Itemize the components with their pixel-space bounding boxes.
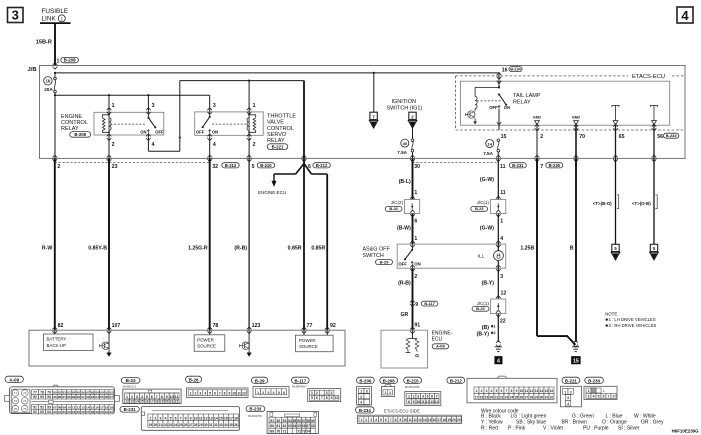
svg-text:B-26: B-26 [389,206,398,211]
svg-text:17: 17 [229,417,233,421]
svg-text:14: 14 [135,399,139,403]
svg-text:2: 2 [540,134,543,140]
svg-text:18: 18 [105,405,109,409]
svg-text:40: 40 [403,141,408,146]
svg-text:B-221: B-221 [565,378,578,383]
svg-text:95: 95 [53,395,57,399]
svg-text:2: 2 [253,142,256,148]
svg-text:68: 68 [311,424,315,428]
wire (B)/(B-Y) to ground [497,314,499,342]
connector table B-210 [404,377,422,383]
svg-text:26: 26 [81,410,85,414]
ECU entry connector marks [53,327,58,330]
svg-text:9: 9 [190,417,192,421]
wire 1.25B pin7 to ground [536,158,538,336]
wire tail relay output pin 15 [498,109,500,130]
svg-text:77: 77 [307,323,313,329]
wire (B-W) J/C(2) to AS&G switch [412,214,414,245]
twist bracket 56 [655,195,657,209]
svg-text:20: 20 [53,410,57,414]
junction connector J/C(1) B-23 box lower [491,299,506,314]
svg-text:OFF: OFF [196,130,205,135]
svg-text:B-208: B-208 [64,58,77,63]
wire fuse 40 output [412,152,414,158]
svg-text:POWER: POWER [197,337,214,342]
svg-text:B-117: B-117 [424,301,434,306]
svg-text:1: 1 [476,389,478,393]
twist bracket 65 [617,195,619,209]
svg-text:(B-Y): (B-Y) [477,331,490,337]
svg-text:ECU: ECU [432,337,443,343]
switch sense symbol pin 65 [612,105,619,107]
wire 15B-R from fusible link [54,23,56,66]
svg-text:B-210: B-210 [260,163,272,168]
svg-text:10: 10 [403,418,407,422]
svg-text:GND: GND [572,116,581,120]
svg-text:90: 90 [100,390,104,394]
svg-text:52: 52 [40,405,44,409]
svg-text:GND: GND [533,116,542,120]
svg-text:(B-W): (B-W) [397,226,411,232]
wire 0.85Y-B pin23 to ECU pin 107 [108,158,110,330]
tail relay driver transistor [468,111,475,118]
svg-text:L : Blue: L : Blue [606,413,623,419]
svg-text:J/C(2): J/C(2) [391,200,404,205]
svg-text:2: 2 [360,395,362,399]
wire (R-B) AS&G to B-117 [412,268,414,330]
svg-text:OFF: OFF [398,261,407,266]
inline connector 9 B-117 [410,300,415,303]
svg-text:78: 78 [213,323,219,329]
svg-text:0.85Y-B: 0.85Y-B [88,245,107,251]
svg-text:7: 7 [321,396,323,400]
svg-text:✱1 : LH DRIVE VEHICLES: ✱1 : LH DRIVE VEHICLES [605,317,656,322]
wire throttle relay contact pin 4 [209,134,211,158]
svg-text:MU803780: MU803780 [248,414,262,418]
page reference 4 (top right) [677,7,693,23]
svg-text:G : Green: G : Green [572,413,594,419]
svg-text:B-208: B-208 [383,378,396,383]
svg-text:94: 94 [47,395,51,399]
svg-text:14: 14 [214,417,218,421]
svg-text:13: 13 [209,417,213,421]
throttle relay mechanical link dashed [212,123,246,125]
svg-text:3: 3 [588,394,590,398]
svg-text:1: 1 [564,390,566,394]
svg-text:W : White: W : White [634,413,656,419]
condenser transistor pin 107 [102,342,109,349]
svg-text:SB : Sky blue: SB : Sky blue [516,420,546,426]
svg-text:6: 6 [501,389,503,393]
svg-text:2: 2 [389,391,391,395]
svg-text:18: 18 [480,396,484,400]
svg-text:56: 56 [657,134,663,140]
svg-text:GR : Grey: GR : Grey [641,420,664,426]
battery back-up box [54,330,56,334]
svg-text:6: 6 [603,394,605,398]
svg-text:B-233: B-233 [249,407,262,412]
svg-text:18: 18 [442,418,446,422]
svg-text:1: 1 [360,389,362,393]
connector table B-233 [246,406,265,412]
pin 6 J/C(2) [410,210,415,213]
svg-text:3: 3 [500,274,503,280]
svg-text:13: 13 [535,389,539,393]
engine relay contact arm [147,112,149,117]
svg-text:51: 51 [270,419,274,423]
svg-text:B-23: B-23 [126,378,136,383]
svg-text:06: 06 [105,395,109,399]
throttle valve control servo relay B-221 box [195,112,264,135]
svg-text:70: 70 [579,134,585,140]
svg-text:8: 8 [511,389,513,393]
svg-text:77: 77 [33,390,37,394]
svg-text:11: 11 [237,392,241,396]
svg-text:123: 123 [252,323,261,329]
svg-text:18: 18 [234,417,238,421]
svg-text:56: 56 [297,419,301,423]
svg-text:2: 2 [481,389,483,393]
svg-text:83: 83 [67,390,71,394]
svg-text:07: 07 [53,405,57,409]
svg-text:55: 55 [293,419,297,423]
svg-text:1.25B: 1.25B [520,245,534,251]
svg-text:AS&G OFF: AS&G OFF [363,247,391,253]
svg-text:21: 21 [495,396,499,400]
node tail lamp relay top [498,86,500,88]
svg-text:21: 21 [170,399,174,403]
svg-text:25: 25 [515,396,519,400]
svg-text:71: 71 [283,429,287,433]
svg-text:2: 2 [365,418,367,422]
svg-text:7.5A: 7.5A [397,150,407,155]
connector group dashed line B-231 [413,161,499,163]
svg-text:1: 1 [408,394,410,398]
svg-text:6: 6 [431,394,433,398]
svg-text:12: 12 [77,405,81,409]
wire bus engine relay output (bus 3) [180,80,304,82]
svg-text:4: 4 [497,358,500,364]
connector table A-09 [5,376,23,382]
svg-text:12: 12 [413,418,417,422]
svg-text:RELAY: RELAY [513,99,531,105]
svg-text:3: 3 [417,394,419,398]
wire pin4 to ILL [497,244,499,251]
svg-text:74: 74 [307,429,311,433]
svg-text:75: 75 [14,407,18,411]
tail relay mechanical link dashed [477,100,502,102]
svg-text:SWITCH (IG1): SWITCH (IG1) [387,105,423,111]
svg-text:2: 2 [316,391,318,395]
connector mark at J/B top entry [53,62,58,65]
svg-text:8: 8 [395,418,397,422]
pin 1 J/C(1) [496,210,501,213]
svg-text:32: 32 [110,410,114,414]
svg-text:70: 70 [276,429,280,433]
svg-text:16: 16 [145,399,149,403]
node engine relay coil branch [108,94,110,96]
condenser transistor pin 123 [242,342,249,349]
svg-text:63: 63 [288,424,292,428]
wire ETACS pin 65 [615,125,617,159]
svg-text:14: 14 [435,400,439,404]
svg-text:12: 12 [530,389,534,393]
svg-text:2: 2 [195,392,197,396]
svg-text:15: 15 [428,418,432,422]
fusible link symbol 7 [370,112,377,119]
AS&G OFF switch B-29 box [397,244,506,268]
svg-text:72: 72 [297,429,301,433]
connector table B-206 [357,377,375,383]
svg-text:MU804567: MU804567 [292,385,307,389]
svg-text:28: 28 [194,423,198,427]
svg-text:5: 5 [496,389,498,393]
svg-text:96: 96 [58,395,62,399]
svg-text:4: 4 [593,394,595,398]
svg-text:5: 5 [278,391,280,395]
wire ETACS pin 56 [653,125,655,159]
svg-text:10: 10 [520,389,524,393]
svg-text:81: 81 [58,390,62,394]
node ignition branch [373,72,375,74]
svg-text:OFF: OFF [155,130,164,135]
connector table B-26 [186,376,202,382]
svg-text:12: 12 [501,291,507,297]
AS&G switch contact [412,244,414,250]
svg-text:4: 4 [165,417,167,421]
svg-text:57: 57 [302,419,306,423]
svg-text:9: 9 [166,395,168,399]
svg-text:93: 93 [40,395,44,399]
svg-text:B-23: B-23 [476,306,485,311]
svg-text:B-212: B-212 [225,163,237,168]
svg-text:11: 11 [72,405,76,409]
svg-text:92: 92 [33,395,37,399]
svg-text:ETACS-ECU: ETACS-ECU [632,74,665,80]
svg-text:(R-B): (R-B) [234,245,247,251]
svg-text:65: 65 [297,424,301,428]
connector table B-212 [447,377,465,383]
wire engine relay contact pin 3 [147,95,149,112]
svg-text:12: 12 [242,392,246,396]
svg-text:29: 29 [199,423,203,427]
svg-text:6: 6 [414,218,417,224]
svg-text:18: 18 [155,399,159,403]
svg-text:PU : Purple: PU : Purple [583,426,609,432]
svg-text:A-09: A-09 [9,377,19,382]
svg-text:16: 16 [502,67,508,73]
svg-text:✱2: ✱2 [491,331,496,335]
svg-text:33: 33 [219,423,223,427]
wire (B-L) ignition to J/C(2) [412,158,414,199]
ground for J/C column [496,340,501,343]
pin 22 J/C(1) lower [496,310,501,313]
svg-text:6: 6 [175,417,177,421]
ILL illumination lamp [494,251,504,261]
svg-text:BACK-UP: BACK-UP [47,343,67,348]
tail relay contact arm [498,93,500,95]
svg-text:VALVE: VALVE [267,120,284,126]
svg-text:(G-W): (G-W) [480,226,494,232]
svg-text:9: 9 [613,394,615,398]
svg-text:7: 7 [219,392,221,396]
svg-text:5: 5 [427,394,429,398]
svg-text:8: 8 [326,396,328,400]
svg-text:LG : Light green: LG : Light green [511,413,547,419]
arrow on riser wire [179,136,181,142]
wire R-W pin2 to ECU pin 82 [54,158,56,330]
engine ECU internal load [412,330,414,338]
svg-text:4: 4 [567,402,569,406]
svg-text:26: 26 [520,396,524,400]
svg-text:7: 7 [436,394,438,398]
svg-text:14: 14 [487,141,492,146]
svg-text:19: 19 [149,423,153,427]
svg-text:P : Pink: P : Pink [508,426,526,432]
svg-text:23: 23 [505,396,509,400]
svg-text:(B-L): (B-L) [399,179,411,185]
svg-text:THROTTLE: THROTTLE [267,113,296,119]
pin 2 engine relay [107,134,112,137]
connector table B-230 [585,377,604,383]
node throttle relay coil branch [248,80,250,82]
wire ETACS pin 2 [536,125,538,159]
svg-text:5: 5 [598,394,600,398]
svg-text:1: 1 [361,418,363,422]
svg-text:30: 30 [414,164,420,170]
svg-text:<T>(O-B): <T>(O-B) [632,201,651,206]
fusible link symbol 2 ignition switch [409,112,416,119]
svg-text:(R-B): (R-B) [398,280,411,286]
svg-text:9: 9 [331,396,333,400]
svg-text:19: 19 [160,399,164,403]
svg-text:4: 4 [422,394,424,398]
svg-text:12: 12 [204,417,208,421]
pin 2 throttle relay [247,134,252,137]
svg-text:FUSIBLE: FUSIBLE [42,8,69,15]
svg-text:8: 8 [185,417,187,421]
svg-text:3: 3 [267,391,269,395]
svg-text:10: 10 [416,400,420,404]
svg-text:4: 4 [152,142,155,148]
svg-text:IGNITION: IGNITION [392,99,416,105]
svg-text:8: 8 [161,395,163,399]
svg-text:6: 6 [151,395,153,399]
throttle relay contact arm [209,112,211,117]
svg-text:35: 35 [229,423,233,427]
svg-text:73: 73 [14,399,18,403]
connector table B-234 ETACS-ECU side [356,407,375,413]
svg-text:34: 34 [224,423,228,427]
svg-text:17: 17 [150,399,154,403]
svg-text:B-29: B-29 [380,260,389,265]
svg-text:POWER: POWER [299,338,316,343]
svg-text:4: 4 [491,389,493,393]
svg-text:14: 14 [423,418,427,422]
svg-text:16: 16 [46,79,51,84]
svg-text:1: 1 [57,58,60,64]
svg-text:1: 1 [384,391,386,395]
svg-text:B-231: B-231 [512,163,524,168]
svg-text:11: 11 [199,417,203,421]
svg-text:28: 28 [530,396,534,400]
wire ETACS pin 70 [575,125,577,159]
svg-text:71: 71 [14,391,18,395]
svg-text:B-212: B-212 [316,163,328,168]
svg-text:A-09: A-09 [436,344,445,349]
junction connector J/C(1) B-23 box upper [491,200,506,214]
svg-text:J/C(1): J/C(1) [477,200,490,205]
svg-text:3: 3 [152,103,155,109]
svg-text:107: 107 [112,323,121,329]
fuse 16 20A [54,73,56,77]
svg-text:<T>(B-O): <T>(B-O) [593,201,612,206]
wire (O-B) from pin 56 [653,158,655,244]
svg-text:29: 29 [95,410,99,414]
svg-text:BATTERY: BATTERY [47,337,67,342]
connector group dashed line B-212 [55,161,210,163]
svg-text:01: 01 [81,395,85,399]
svg-text:25: 25 [77,410,81,414]
fuse 14 7.5A [497,139,500,142]
wire ignition switch to fuse 40 [412,128,414,139]
wire engine relay coil pin 1 [108,95,110,112]
svg-text:9: 9 [228,392,230,396]
svg-text:1: 1 [149,417,151,421]
svg-text:54: 54 [288,419,292,423]
svg-text:24: 24 [174,423,178,427]
svg-text:SOURCE: SOURCE [197,344,216,349]
svg-text:67: 67 [307,424,311,428]
svg-text:4: 4 [213,142,216,148]
svg-text:1: 1 [311,391,313,395]
wire 1.25G-R pin32 to ECU pin 78 [209,158,211,330]
svg-text:22: 22 [63,410,67,414]
svg-text:16: 16 [550,389,554,393]
svg-text:9: 9 [516,389,518,393]
svg-text:13: 13 [418,418,422,422]
svg-text:2: 2 [262,391,264,395]
svg-text:21: 21 [159,423,163,427]
svg-text:B-231: B-231 [124,407,137,412]
svg-text:RELAY: RELAY [267,138,285,144]
svg-text:1: 1 [414,236,417,242]
svg-text:1: 1 [190,392,192,396]
svg-text:28: 28 [91,410,95,414]
svg-text:89: 89 [95,390,99,394]
svg-text:2: 2 [112,142,115,148]
connector table B-221 [562,377,580,383]
svg-text:5: 5 [209,392,211,396]
wire bus2 down to throttle relay contact [209,95,211,112]
svg-text:64: 64 [293,424,297,428]
svg-text:2: 2 [154,417,156,421]
svg-text:92: 92 [330,323,336,329]
svg-text:73: 73 [302,429,306,433]
svg-text:27: 27 [86,410,90,414]
svg-text:53: 53 [283,419,287,423]
connector table B-208 [380,377,398,383]
svg-text:7: 7 [540,164,543,170]
svg-text:27: 27 [189,423,193,427]
svg-text:5: 5 [146,395,148,399]
svg-text:3: 3 [370,418,372,422]
svg-text:24: 24 [72,410,76,414]
svg-text:63: 63 [40,410,44,414]
svg-text:13: 13 [130,399,134,403]
svg-text:15B-R: 15B-R [36,40,52,46]
svg-text:26: 26 [184,423,188,427]
